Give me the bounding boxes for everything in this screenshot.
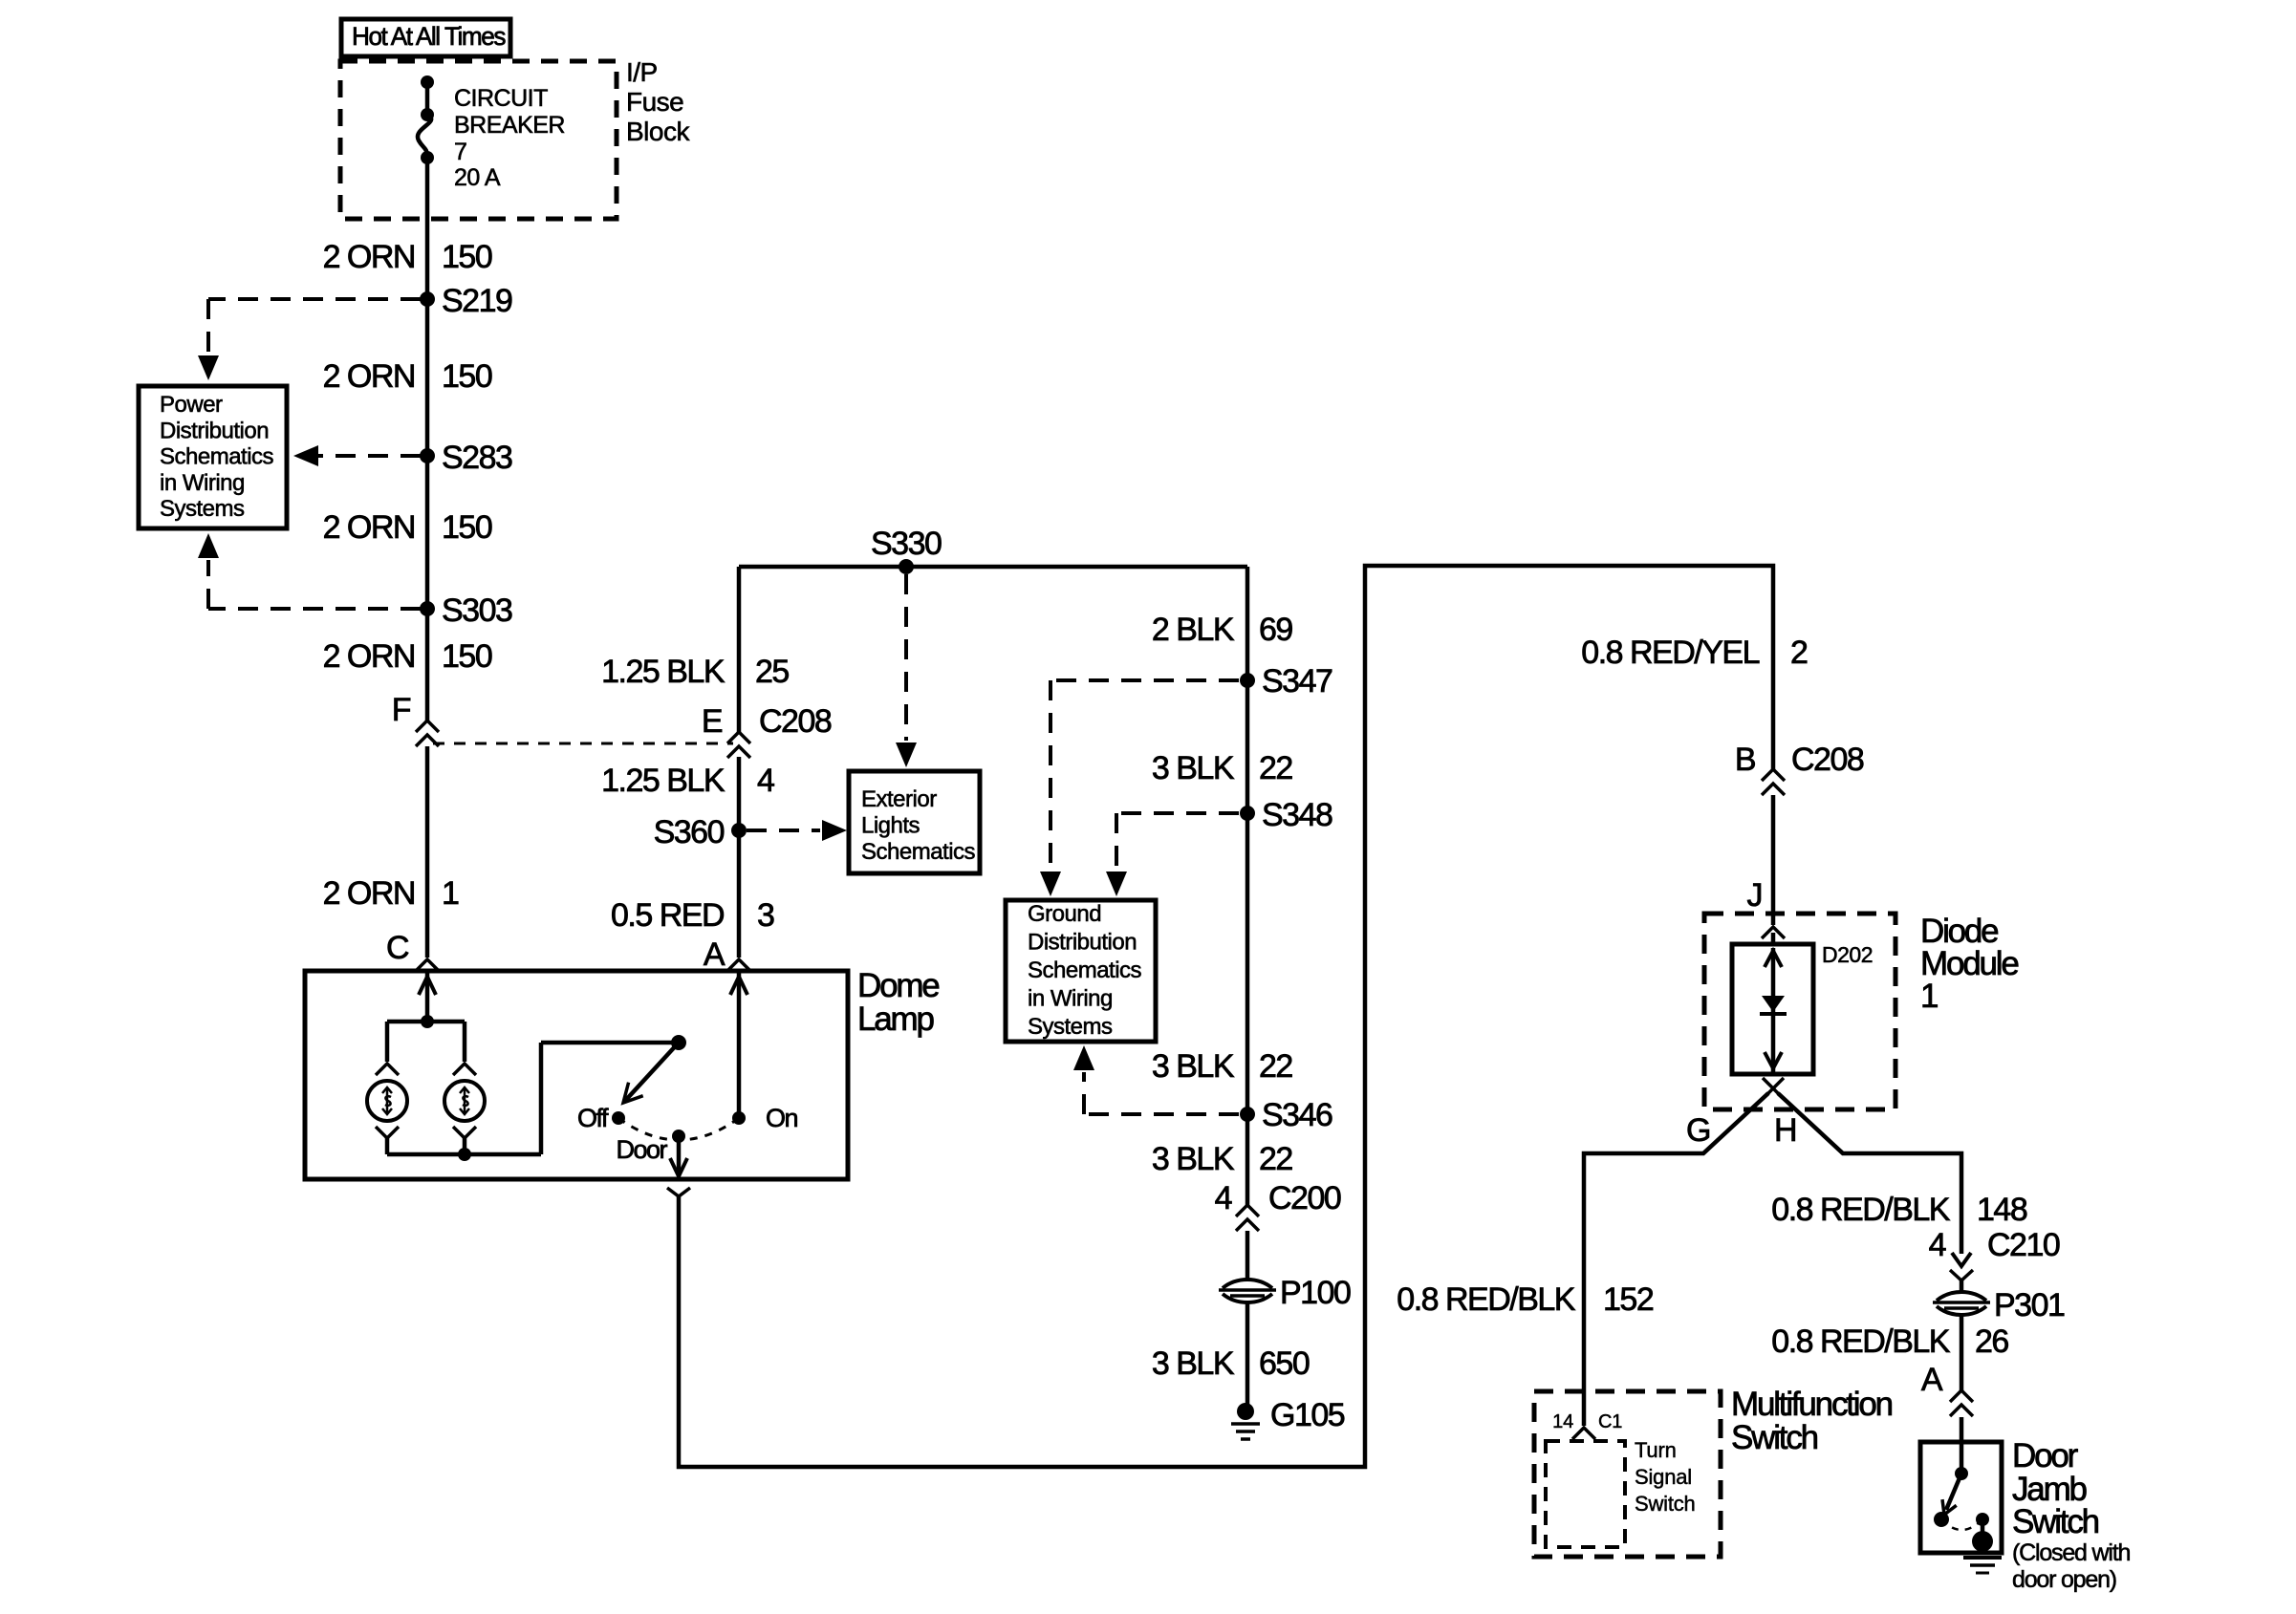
svg-text:1.25 BLK: 1.25 BLK	[601, 763, 726, 799]
svg-text:3 BLK: 3 BLK	[1152, 1141, 1235, 1177]
svg-text:1: 1	[442, 875, 459, 912]
svg-text:14: 14	[1552, 1411, 1573, 1432]
svg-text:4: 4	[757, 763, 774, 799]
svg-text:Distribution: Distribution	[1028, 930, 1137, 956]
svg-text:BREAKER: BREAKER	[454, 112, 565, 139]
svg-text:On: On	[766, 1104, 798, 1132]
svg-text:G: G	[1686, 1112, 1710, 1149]
svg-text:F: F	[392, 692, 411, 728]
svg-text:69: 69	[1259, 612, 1292, 648]
svg-text:20 A: 20 A	[454, 164, 501, 191]
svg-text:0.5 RED: 0.5 RED	[611, 897, 724, 934]
svg-text:2 ORN: 2 ORN	[323, 638, 415, 675]
svg-text:Fuse: Fuse	[626, 87, 683, 117]
svg-text:0.8 RED/BLK: 0.8 RED/BLK	[1771, 1192, 1951, 1228]
svg-text:0.8 RED/BLK: 0.8 RED/BLK	[1771, 1323, 1951, 1360]
svg-text:Door: Door	[2012, 1437, 2079, 1474]
svg-text:650: 650	[1259, 1345, 1310, 1382]
svg-text:Switch: Switch	[2012, 1503, 2099, 1540]
svg-text:3 BLK: 3 BLK	[1152, 1345, 1235, 1382]
svg-text:7: 7	[454, 139, 466, 165]
svg-text:150: 150	[442, 358, 492, 395]
svg-text:0.8 RED/YEL: 0.8 RED/YEL	[1581, 635, 1759, 671]
svg-text:I/P: I/P	[626, 57, 658, 87]
svg-text:2 ORN: 2 ORN	[323, 875, 415, 912]
svg-text:C208: C208	[759, 703, 832, 740]
svg-text:S347: S347	[1262, 663, 1332, 699]
svg-text:Systems: Systems	[1028, 1014, 1113, 1040]
svg-text:Door: Door	[616, 1135, 667, 1164]
svg-text:3 BLK: 3 BLK	[1152, 1048, 1235, 1085]
svg-text:E: E	[702, 703, 723, 740]
svg-text:S283: S283	[442, 440, 512, 476]
svg-text:D202: D202	[1822, 942, 1873, 967]
svg-text:Power: Power	[160, 392, 223, 418]
svg-text:22: 22	[1259, 1048, 1292, 1085]
svg-text:Signal: Signal	[1635, 1465, 1692, 1489]
svg-text:2 ORN: 2 ORN	[323, 239, 415, 275]
svg-text:Ground: Ground	[1028, 901, 1101, 927]
svg-text:2 ORN: 2 ORN	[323, 358, 415, 395]
svg-text:S346: S346	[1262, 1097, 1332, 1133]
svg-text:148: 148	[1977, 1192, 2027, 1228]
svg-text:2: 2	[1790, 635, 1808, 671]
svg-text:A: A	[704, 936, 726, 973]
svg-text:A: A	[1921, 1362, 1943, 1398]
svg-text:Switch: Switch	[1731, 1419, 1818, 1456]
svg-text:22: 22	[1259, 750, 1292, 786]
svg-text:C: C	[386, 930, 409, 966]
svg-text:S219: S219	[442, 283, 512, 319]
svg-text:0.8 RED/BLK: 0.8 RED/BLK	[1397, 1281, 1576, 1318]
svg-text:26: 26	[1975, 1323, 2008, 1360]
svg-text:Schematics: Schematics	[1028, 958, 1142, 983]
svg-text:Multifunction: Multifunction	[1731, 1386, 1893, 1423]
svg-text:C210: C210	[1987, 1227, 2060, 1263]
svg-text:Switch: Switch	[1635, 1492, 1696, 1516]
svg-text:J: J	[1747, 877, 1763, 914]
svg-text:H: H	[1774, 1112, 1796, 1149]
svg-text:door open): door open)	[2012, 1566, 2116, 1593]
svg-text:Lights: Lights	[861, 812, 921, 838]
svg-text:Schematics: Schematics	[160, 444, 274, 470]
svg-text:4: 4	[1215, 1180, 1232, 1216]
svg-text:C200: C200	[1268, 1180, 1341, 1216]
svg-text:3 BLK: 3 BLK	[1152, 750, 1235, 786]
svg-text:1.25 BLK: 1.25 BLK	[601, 654, 726, 690]
svg-text:22: 22	[1259, 1141, 1292, 1177]
svg-text:Hot At All Times: Hot At All Times	[352, 22, 506, 51]
svg-text:C208: C208	[1791, 742, 1864, 778]
svg-text:Schematics: Schematics	[861, 839, 976, 865]
svg-text:2 BLK: 2 BLK	[1152, 612, 1235, 648]
svg-text:S330: S330	[871, 526, 942, 562]
svg-text:1: 1	[1920, 978, 1938, 1015]
svg-text:S348: S348	[1262, 797, 1332, 833]
svg-text:CIRCUIT: CIRCUIT	[454, 85, 548, 112]
svg-text:2 ORN: 2 ORN	[323, 509, 415, 546]
svg-text:Distribution: Distribution	[160, 418, 269, 443]
svg-text:P100: P100	[1280, 1275, 1351, 1311]
svg-text:P301: P301	[1994, 1287, 2065, 1323]
svg-text:Turn: Turn	[1635, 1438, 1677, 1462]
svg-text:B: B	[1735, 742, 1755, 778]
svg-text:C1: C1	[1598, 1411, 1622, 1432]
svg-text:150: 150	[442, 509, 492, 546]
svg-text:G105: G105	[1270, 1397, 1345, 1433]
svg-text:S303: S303	[442, 592, 512, 629]
svg-text:4: 4	[1929, 1227, 1946, 1263]
svg-text:S360: S360	[654, 814, 725, 850]
svg-text:Off: Off	[577, 1104, 609, 1132]
svg-text:3: 3	[757, 897, 774, 934]
svg-text:Lamp: Lamp	[857, 1001, 933, 1038]
svg-text:Dome: Dome	[857, 967, 939, 1004]
svg-text:Block: Block	[626, 117, 690, 146]
svg-text:Exterior: Exterior	[861, 786, 937, 812]
svg-text:150: 150	[442, 239, 492, 275]
svg-text:25: 25	[755, 654, 789, 690]
svg-text:(Closed with: (Closed with	[2012, 1539, 2130, 1566]
svg-text:150: 150	[442, 638, 492, 675]
svg-text:in Wiring: in Wiring	[1028, 986, 1113, 1012]
svg-text:in Wiring: in Wiring	[160, 470, 245, 496]
svg-text:Systems: Systems	[160, 496, 245, 522]
svg-text:152: 152	[1603, 1281, 1654, 1318]
